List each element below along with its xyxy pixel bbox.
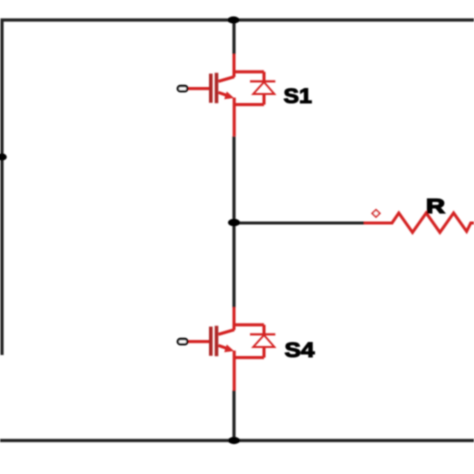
svg-text:R: R bbox=[426, 196, 446, 218]
svg-text:S1: S1 bbox=[284, 84, 313, 108]
svg-text:S4: S4 bbox=[285, 338, 315, 362]
